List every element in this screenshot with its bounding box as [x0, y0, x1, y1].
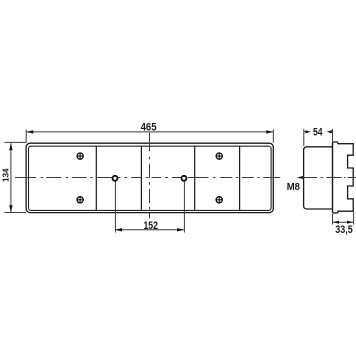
dim 152 arrow left: [115, 228, 122, 231]
dim 54 right arrow (points inward): [331, 131, 333, 133]
dim 465 extension left: [25, 129, 27, 142]
dim 54 extension right: [332, 129, 334, 142]
dim 54 left arrow (points inward): [304, 131, 306, 133]
dim 465 arrow right: [266, 130, 273, 133]
dim 134 line: [10, 143, 12, 212]
side view centerline: [304, 177, 356, 179]
mount hole left: [113, 176, 118, 181]
mount hole right: [182, 176, 187, 181]
divider 3: [194, 146, 196, 210]
dim 33.5 line: [333, 221, 354, 223]
divider 4: [239, 146, 241, 210]
dim 465 extension right: [272, 129, 274, 142]
dim 33.5 arrow left: [333, 221, 339, 224]
dim 33.5 extension left: [332, 214, 334, 225]
dim 134 arrow top: [9, 143, 12, 150]
dim 134 extension bottom: [5, 212, 27, 214]
dim 152 line: [115, 229, 184, 231]
dim 152 arrow right: [177, 228, 184, 231]
dim 33.5 arrow right: [347, 221, 353, 224]
dim 134 arrow bottom: [9, 205, 12, 212]
divider 2: [140, 146, 142, 210]
dim 54 extension left: [303, 129, 305, 146]
side view lens/housing boundary: [332, 143, 334, 212]
screw top-right: [216, 152, 223, 159]
vertical centerline front view: [149, 133, 151, 219]
M8 leader arrow: [297, 176, 303, 179]
front view inner lens edge: [29, 146, 272, 210]
side view lens profile: [304, 147, 333, 209]
dim 152 extension right: [183, 181, 185, 232]
dim 465 line: [26, 131, 273, 133]
screw top-left: [76, 152, 83, 159]
horizontal centerline front view: [15, 177, 280, 179]
dim 33.5 extension right: [353, 212, 355, 224]
screw bottom-left: [76, 196, 83, 203]
screw bottom-right: [216, 196, 223, 203]
dim 465 arrow left: [26, 130, 33, 133]
divider 1: [95, 146, 97, 210]
front view outer body: [26, 143, 273, 212]
dim 134 extension top: [5, 141, 27, 143]
dim 152 extension left: [114, 181, 116, 232]
side view housing profile: [333, 142, 354, 213]
